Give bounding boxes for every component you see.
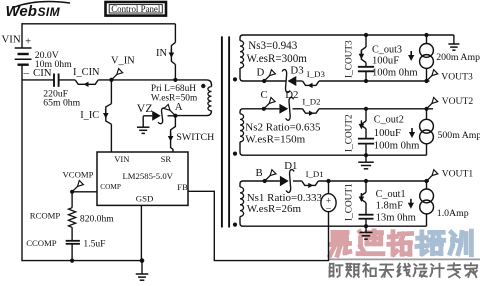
svg-text:1.5uF: 1.5uF — [83, 238, 105, 249]
svg-text:I_COUT2: I_COUT2 — [345, 114, 355, 152]
svg-text:I_COUT1: I_COUT1 — [345, 183, 355, 221]
svg-text:13m 0hm: 13m 0hm — [376, 212, 417, 223]
svg-text:I_D3: I_D3 — [307, 69, 326, 79]
svg-text:820.0hm: 820.0hm — [80, 214, 114, 225]
svg-text:Control Panel: Control Panel — [111, 4, 161, 14]
svg-text:I_IC: I_IC — [80, 110, 99, 121]
svg-text:I_CIN: I_CIN — [73, 67, 100, 78]
svg-text:RCOMP: RCOMP — [30, 211, 61, 221]
svg-text:VOUT2: VOUT2 — [442, 96, 474, 107]
svg-text:C_out3: C_out3 — [372, 44, 402, 55]
svg-text:VZ: VZ — [137, 101, 153, 115]
svg-text:1.0Amp: 1.0Amp — [437, 208, 469, 219]
svg-text:A: A — [175, 101, 183, 113]
svg-text:W.esR=26m: W.esR=26m — [247, 203, 302, 215]
svg-text:100m 0hm: 100m 0hm — [372, 67, 418, 78]
svg-text:D1: D1 — [284, 160, 297, 172]
svg-text:GSD: GSD — [136, 194, 154, 204]
svg-text:LM2585-5.0V: LM2585-5.0V — [123, 171, 174, 181]
svg-text:VCOMP: VCOMP — [63, 169, 94, 179]
svg-text:I_D1: I_D1 — [306, 169, 324, 179]
svg-text:B: B — [256, 167, 263, 179]
svg-text:–: – — [23, 67, 30, 79]
svg-text:500m Amp: 500m Amp — [438, 130, 480, 141]
svg-text:–: – — [325, 204, 331, 214]
svg-text:D2: D2 — [285, 89, 298, 101]
svg-text:65m 0hm: 65m 0hm — [43, 97, 80, 108]
svg-text:Ns3=0.943: Ns3=0.943 — [248, 40, 298, 52]
svg-text:1.8mF: 1.8mF — [376, 201, 403, 212]
svg-text:SWITCH: SWITCH — [176, 132, 214, 143]
svg-text:CCOMP: CCOMP — [26, 238, 57, 248]
svg-text:100uF: 100uF — [374, 128, 401, 139]
svg-text:Ns2 Ratio=0.635: Ns2 Ratio=0.635 — [245, 122, 321, 134]
svg-text:C_out1: C_out1 — [376, 189, 406, 200]
svg-text:VOUT3: VOUT3 — [441, 71, 473, 82]
svg-text:100uF: 100uF — [372, 55, 399, 66]
svg-text:100m 0hm: 100m 0hm — [374, 140, 420, 151]
svg-text:CIN: CIN — [33, 67, 52, 79]
svg-text:VOUT1: VOUT1 — [442, 168, 474, 179]
svg-text:V_IN: V_IN — [111, 56, 135, 67]
svg-text:W.esR=300m: W.esR=300m — [247, 53, 308, 65]
svg-text:SR: SR — [161, 154, 172, 164]
svg-text:C: C — [261, 89, 268, 101]
svg-text:D3: D3 — [290, 65, 303, 77]
svg-text:I_D2: I_D2 — [302, 97, 320, 107]
svg-text:I_COUT3: I_COUT3 — [345, 40, 355, 78]
svg-text:+: + — [25, 35, 31, 47]
svg-text:SIM: SIM — [38, 5, 61, 19]
svg-text:Web: Web — [6, 3, 37, 20]
svg-text:W.esR=150m: W.esR=150m — [245, 134, 305, 146]
svg-text:D: D — [257, 66, 265, 78]
svg-text:VIN: VIN — [2, 34, 21, 46]
svg-text:COMP: COMP — [100, 182, 121, 191]
svg-text:C_out2: C_out2 — [374, 114, 404, 125]
svg-text:IN: IN — [156, 48, 167, 59]
svg-text:200m Amp: 200m Amp — [436, 52, 480, 63]
svg-text:FB: FB — [177, 182, 188, 192]
svg-text:VIN: VIN — [114, 154, 130, 164]
